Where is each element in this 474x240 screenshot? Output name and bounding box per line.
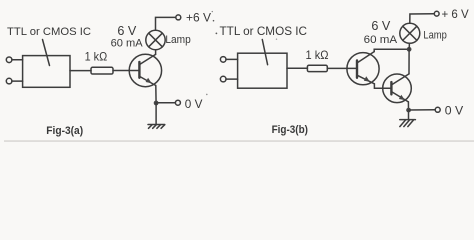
transistor Q2 collector stroke (b)	[358, 52, 375, 63]
svg-text:Fig-3(a): Fig-3(a)	[46, 125, 83, 137]
transistor Q3 emitter stroke (b)	[392, 92, 409, 102]
period before TTL (b)	[216, 33, 218, 35]
wire node to ground (b)	[408, 110, 410, 119]
speckle dot under TTL text (b)	[276, 39, 277, 40]
label "+ 6 V" (b)	[442, 7, 469, 21]
ground hatch 2 (b)	[404, 120, 410, 126]
lamp L2 circle (b)	[400, 23, 420, 43]
figure caption Fig-3(a)	[46, 125, 83, 137]
wire input2 to box (a)	[12, 80, 23, 82]
wire box output to resistor (b)	[287, 67, 307, 69]
svg-text:6 V: 6 V	[371, 19, 391, 33]
wire node to ground (a)	[155, 103, 157, 124]
wire input1 to box (b)	[226, 58, 238, 60]
node dot junction (a)	[154, 101, 159, 106]
transistor Q2 emitter stroke (b)	[358, 75, 375, 83]
svg-text:0 V: 0 V	[185, 97, 203, 111]
svg-text:1 kΩ: 1 kΩ	[85, 49, 108, 63]
svg-text:+ 6 V: + 6 V	[442, 7, 469, 21]
wire lamp top riser (a)	[156, 17, 176, 30]
period after +6 V (a)	[213, 20, 215, 22]
label "Lamp" (a)	[165, 34, 190, 46]
wire lamp top riser (b)	[410, 14, 434, 24]
lamp L1 cross stroke 2 (a)	[149, 33, 163, 47]
speckle dot near 0V (a)	[206, 94, 208, 96]
input terminal 1 (a)	[6, 57, 12, 63]
ground symbol bar (a)	[148, 124, 165, 126]
wire Q2 collector to top rail (b)	[374, 49, 407, 51]
svg-text:+6 V: +6 V	[186, 10, 212, 24]
input terminal 1 (b)	[220, 57, 226, 63]
label "0 V" (a)	[185, 97, 203, 111]
svg-text:60 mA: 60 mA	[364, 34, 398, 46]
label "+6 V" (a)	[186, 10, 212, 24]
value label "1 kOhm" (b)	[306, 48, 329, 62]
+6V terminal circle (b)	[434, 11, 439, 16]
label "Lamp" (b)	[423, 29, 446, 41]
wire collector to lamp (a)	[155, 50, 157, 55]
input terminal 2 (b)	[220, 76, 226, 82]
wire emitter to 0V node (a)	[155, 86, 157, 104]
lamp L1 cross stroke 1 (a)	[149, 33, 163, 47]
label "TTL or CMOS IC" (b)	[220, 25, 308, 38]
transistor Q2 emitter arrow (b)	[364, 76, 370, 81]
ground hatch 2 (a)	[153, 125, 157, 129]
transistor Q1 emitter arrow (a)	[146, 78, 152, 84]
transistor Q1 body circle (a)	[129, 54, 161, 86]
lamp L2 cross stroke 2 (b)	[403, 26, 417, 40]
transistor Q3 collector stroke (b)	[392, 74, 409, 85]
IC box U2 (b)	[238, 53, 287, 88]
wire box output to resistor (a)	[70, 70, 91, 72]
ground hatch 1 (b)	[400, 120, 406, 126]
transistor Q1 emitter stroke (a)	[140, 77, 156, 86]
svg-text:Lamp: Lamp	[165, 34, 190, 46]
transistor Q1 base bar (a)	[138, 62, 140, 78]
resistor R2 1 kOhm (b)	[307, 65, 327, 71]
wire Q2 emitter to Q3 base (b)	[374, 84, 390, 89]
0V terminal circle (a)	[175, 100, 180, 105]
ground hatch 4 (a)	[161, 125, 165, 129]
ground hatch 1 (a)	[149, 125, 153, 129]
svg-text:60 mA: 60 mA	[111, 38, 144, 50]
wire Q3 emitter to 0V node (b)	[407, 102, 409, 110]
label "60 mA" (b)	[364, 34, 398, 46]
label "60 mA" (a)	[111, 38, 144, 50]
IC box U1 (a)	[23, 56, 70, 88]
wire node to 0V terminal (b)	[409, 109, 436, 111]
wire input1 to box (a)	[12, 59, 23, 61]
svg-text:1 kΩ: 1 kΩ	[306, 48, 329, 62]
resistor R1 1 kOhm (a)	[91, 67, 113, 74]
input terminal 2 (a)	[6, 78, 12, 84]
wire node to 0V terminal (a)	[156, 102, 175, 104]
transistor Q3 body circle (b)	[383, 74, 412, 103]
ground hatch 3 (b)	[408, 120, 414, 126]
figure caption Fig-3(b)	[272, 124, 309, 136]
wire junction to lamp (b)	[408, 43, 410, 49]
+6V terminal circle (a)	[176, 15, 181, 20]
0V terminal circle (b)	[435, 107, 440, 112]
wire resistor to transistor base (a)	[113, 70, 139, 72]
pointer line from label to IC box (a)	[43, 40, 50, 66]
page artifact gray rule at bottom	[4, 140, 474, 142]
svg-text:6 V: 6 V	[117, 24, 137, 38]
lamp L2 cross stroke 1 (b)	[403, 26, 417, 40]
transistor Q2 base bar (b)	[356, 61, 358, 78]
apostrophe mark above V (a)	[212, 11, 213, 12]
lamp L1 circle (a)	[146, 30, 165, 49]
wire junction down to Q3 collector (b)	[408, 49, 410, 74]
label "6 V" (b)	[371, 19, 391, 33]
value label "1 kOhm" (a)	[85, 49, 108, 63]
transistor Q3 emitter arrow (b)	[399, 95, 405, 100]
svg-text:TTL or CMOS IC: TTL or CMOS IC	[220, 25, 308, 38]
pointer line from label to IC box (b)	[262, 40, 267, 65]
wire resistor to Q2 base (b)	[327, 67, 356, 69]
label "0 V" (b)	[445, 103, 464, 117]
ground hatch 3 (a)	[157, 125, 161, 129]
svg-text:Lamp: Lamp	[423, 29, 446, 41]
node dot junction (b)	[406, 108, 411, 113]
wire input2 to box (b)	[226, 78, 238, 80]
transistor Q2 body circle (b)	[347, 53, 379, 85]
transistor Q3 base bar (b)	[390, 82, 392, 94]
label "6 V" (a)	[117, 24, 137, 38]
junction dot top rail (b)	[407, 47, 412, 52]
svg-text:Fig-3(b): Fig-3(b)	[272, 124, 309, 136]
ground symbol bar (b)	[400, 119, 416, 121]
svg-text:TTL or CMOS IC: TTL or CMOS IC	[7, 26, 91, 38]
svg-text:0 V: 0 V	[445, 103, 464, 117]
transistor Q1 collector stroke (a)	[140, 54, 156, 64]
label "TTL or CMOS IC" (a)	[7, 26, 91, 38]
